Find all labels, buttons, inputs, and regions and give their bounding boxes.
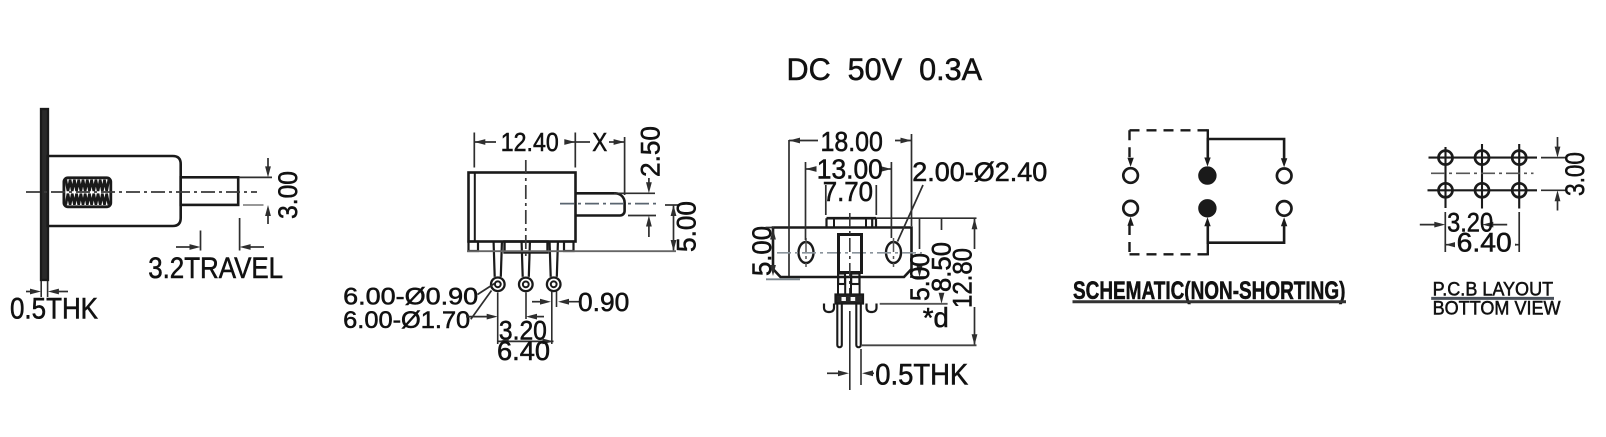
schematic arrow to common 1	[1204, 158, 1210, 167]
view2 dim 2.50 arrow lower	[648, 223, 650, 237]
view1 dim 0.5THK arrows	[26, 291, 32, 293]
view2 leader to pin eyelet	[471, 291, 492, 320]
view3 dim 7.70 extension lines	[825, 185, 827, 215]
view2 dim 12.40 line and arrows	[474, 141, 496, 143]
view3 dim 13.00 extension lines	[805, 162, 807, 240]
view1 plunger	[181, 177, 239, 205]
pcb pad 3	[1512, 151, 1526, 165]
view2 dim 3.20 arrows	[466, 316, 489, 318]
pcb pad 6	[1512, 183, 1526, 197]
view3 dim 5.00 left top tick	[766, 227, 775, 229]
view3 lower housing edges	[837, 273, 839, 296]
svg-text:0.5THK: 0.5THK	[10, 293, 98, 326]
view1 mounting plate 0.5THK	[41, 109, 48, 280]
schematic terminal 1	[1123, 168, 1138, 183]
view3 right pin	[856, 304, 861, 348]
pcb column line 1	[1444, 147, 1446, 208]
pcb pad 5	[1475, 183, 1489, 197]
view1 dim 3.00 ticks	[239, 176, 272, 178]
svg-text:2.50: 2.50	[636, 126, 666, 177]
view2 plunger	[576, 193, 625, 215]
view3 dim 5.00 left arrows	[770, 229, 776, 240]
schematic arrow from terminal 4	[1281, 217, 1287, 226]
view2 dim 12.40 extension lines	[473, 133, 475, 168]
view2 pin 3 shaft	[550, 243, 551, 277]
view3 left oval hole	[799, 242, 814, 263]
view2 switch body	[469, 173, 576, 242]
view2 body inner edge	[474, 173, 476, 242]
view2 bottom tab	[505, 242, 548, 253]
view1 plate extension stubs	[40, 281, 42, 297]
view3 dim 8.50 tick	[880, 303, 948, 305]
svg-text:18.00: 18.00	[821, 126, 883, 157]
view3 dim 18.00 line and arrows	[789, 140, 818, 142]
view3 leader to oval hole	[898, 185, 924, 242]
view3 right oval hole	[886, 242, 901, 263]
view3 contact right	[851, 274, 859, 285]
view2 pin 3 extension lines	[551, 292, 553, 345]
schematic arrow to terminal 3	[1281, 158, 1287, 167]
schematic arrow from common 2	[1204, 217, 1210, 226]
schematic common terminal 1	[1199, 168, 1215, 184]
view2 left bottom foot	[469, 242, 479, 252]
svg-text:5.00: 5.00	[672, 201, 702, 252]
view3 dim 0.5THK extension lines	[849, 311, 851, 390]
schematic dashed frame bottom	[1130, 253, 1208, 255]
schematic arrow from terminal 2	[1127, 217, 1133, 226]
view3 dim 5.00 tick	[910, 276, 927, 278]
view3 right bracket hook	[867, 304, 877, 313]
view2 vertical centerline	[525, 160, 527, 258]
pcb pad 2	[1475, 151, 1489, 165]
pcb row line top	[1429, 157, 1538, 159]
pcb dim 3.00 arrows	[1557, 137, 1559, 151]
svg-text:12.80: 12.80	[948, 248, 978, 308]
view2 dim 6.40 line and arrows	[498, 340, 554, 342]
view1 switch body	[48, 156, 181, 226]
view2 pin 1 extension line	[497, 293, 499, 345]
view3 dim 8.50 line	[941, 218, 943, 230]
svg-text:3.00: 3.00	[1560, 152, 1590, 196]
pcb dim 3.20 arrows	[1420, 224, 1437, 226]
view2 dim 5.00 line and arrows	[673, 205, 675, 251]
svg-text:DC 50V 0.3A: DC 50V 0.3A	[787, 51, 983, 87]
view1 dim 3.00 arrows	[267, 158, 269, 170]
schematic stub top middle	[1207, 129, 1209, 140]
view2 plunger bottom tick	[628, 215, 656, 217]
schematic common terminal 2	[1199, 200, 1215, 216]
view2 dim 2.50 arrow upper	[648, 178, 650, 186]
svg-text:3.2TRAVEL: 3.2TRAVEL	[148, 252, 283, 285]
schematic caption underline	[1073, 300, 1347, 303]
view2 pin 2 extension line	[525, 293, 527, 320]
pcb caption underline 1	[1431, 297, 1554, 300]
view2 right bottom foot	[564, 242, 574, 252]
svg-text:12.40: 12.40	[501, 127, 559, 157]
svg-text:2.00-Ø2.40: 2.00-Ø2.40	[912, 157, 1047, 187]
view3 vertical centerline	[849, 213, 851, 300]
svg-text:*d: *d	[923, 302, 949, 333]
view3 bottom reference line	[862, 344, 977, 346]
schematic terminal 4	[1277, 201, 1292, 216]
view3 contact left	[838, 274, 845, 285]
view3 base wafer	[836, 295, 864, 304]
svg-text:BOTTOM VIEW: BOTTOM VIEW	[1433, 298, 1562, 320]
view3 left pin	[837, 304, 842, 348]
view2 pin 3 eyelet	[547, 278, 561, 292]
view2 pin 1 shaft	[494, 243, 495, 277]
view3 left bracket hook	[824, 304, 834, 313]
view1 centerline	[26, 191, 257, 193]
schematic wire bottom	[1208, 225, 1284, 243]
schematic dashed frame left upper	[1128, 130, 1130, 158]
svg-text:7.70: 7.70	[823, 176, 873, 207]
pcb dim extension line right	[1518, 212, 1520, 252]
view2 plunger right extension line	[624, 137, 626, 195]
svg-text:0.90: 0.90	[578, 287, 629, 317]
schematic dashed frame left lower	[1128, 225, 1130, 254]
view3 plunger rect	[839, 235, 862, 273]
svg-text:6.40: 6.40	[497, 336, 550, 366]
pcb pad 4	[1439, 183, 1453, 197]
view2 pin 2 eyelet	[519, 278, 533, 292]
view2 pin 1 eyelet	[491, 278, 505, 292]
schematic terminal 2	[1123, 201, 1138, 216]
schematic wire top	[1208, 139, 1284, 159]
view1 dim 3.2TRAVEL arrows	[176, 246, 192, 248]
pcb centerline	[1431, 172, 1534, 174]
view3 dim 5.00 left bottom tick	[766, 278, 800, 280]
view2 dim X line and arrows	[575, 141, 590, 143]
pcb dim extension line left	[1444, 212, 1446, 252]
view3 dim 18.00 extension line right	[911, 134, 913, 226]
view3 mounting bracket	[773, 228, 912, 278]
view3 bracket fold line	[788, 140, 790, 276]
view2 plunger top tick	[614, 192, 655, 194]
view3 top reference line	[876, 217, 977, 219]
pcb pad 1	[1439, 151, 1453, 165]
view3 horizontal centerline	[777, 252, 922, 254]
pcb dim 3.00 ticks	[1541, 157, 1567, 159]
view2 dim 0.90 arrows	[532, 301, 543, 303]
view3 dim 13.00 line and arrows	[806, 168, 817, 170]
pcb dim 6.40 line and arrows	[1445, 244, 1519, 246]
view3 dim 5.00 line	[919, 218, 921, 249]
svg-text:3.00: 3.00	[273, 171, 303, 219]
view2 leader to pin hole	[478, 284, 495, 295]
pcb column line 2	[1481, 144, 1483, 209]
svg-text:0.5THK: 0.5THK	[875, 359, 968, 392]
view2 dim 5.00 top tick	[665, 204, 679, 206]
view3 dim 12.80 line	[974, 218, 976, 249]
schematic dashed frame top	[1130, 129, 1208, 131]
schematic arrow to terminal 1	[1127, 158, 1133, 167]
view3 dim 0.5THK arrows	[827, 372, 840, 374]
schematic stub bottom middle	[1207, 243, 1209, 256]
pcb row line bottom	[1428, 189, 1538, 191]
view1 dim 3.2TRAVEL extension lines	[200, 231, 202, 251]
svg-text:6.00-Ø1.70: 6.00-Ø1.70	[343, 307, 470, 334]
view1 spring	[64, 178, 111, 207]
svg-text:6.40: 6.40	[1457, 228, 1512, 258]
view2 plunger centerline	[560, 203, 660, 205]
view3 body top edge with slots	[827, 217, 877, 220]
svg-text:X: X	[592, 127, 607, 157]
pcb column line 3	[1518, 144, 1520, 209]
schematic terminal 3	[1277, 169, 1292, 184]
view2 bottom reference line	[467, 250, 676, 252]
view2 pin 2 shaft	[522, 243, 523, 277]
